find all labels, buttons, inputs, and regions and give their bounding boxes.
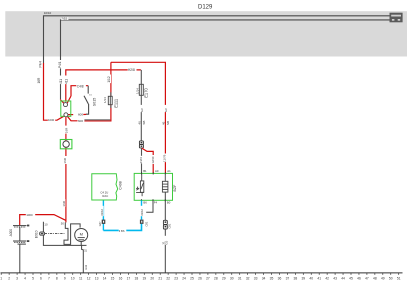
pin A0: [153, 169, 159, 175]
svg-text:3: 3: [16, 276, 18, 280]
svg-text:29: 29: [222, 276, 226, 280]
wire cyan left up: [102, 200, 104, 230]
switch S015 top lead: [87, 86, 89, 94]
wire B0 ground: [164, 229, 166, 273]
svg-text:600: 600: [78, 113, 83, 117]
svg-text:40: 40: [309, 276, 313, 280]
label 411 on wire 2: [59, 76, 63, 85]
svg-text:P4/1: P4/1: [58, 61, 62, 68]
svg-text:10/10: 10/10: [44, 11, 52, 15]
svg-text:46: 46: [357, 276, 361, 280]
label 16R lowest: [61, 199, 66, 207]
module C408 box: [92, 174, 118, 200]
svg-text:46: 46: [138, 121, 142, 125]
svg-text:SB: SB: [166, 121, 170, 125]
label 1000 battery: [26, 213, 35, 217]
svg-text:23: 23: [174, 276, 178, 280]
svg-text:411: 411: [64, 79, 68, 84]
svg-text:16R: 16R: [64, 127, 68, 133]
wire B6 cyan upper: [141, 200, 143, 219]
connector block top right: [390, 13, 403, 23]
label 31/16 right: [140, 206, 144, 216]
svg-text:C408: C408: [118, 181, 122, 190]
svg-text:1/12: 1/12: [107, 76, 111, 82]
svg-text:SB: SB: [142, 121, 146, 125]
svg-text:C4/8: C4/8: [77, 84, 84, 88]
svg-text:46: 46: [161, 121, 165, 125]
label 411 red: [64, 76, 68, 85]
svg-text:42: 42: [325, 276, 329, 280]
svg-text:A000: A000: [9, 229, 13, 237]
connector bushing green box: [60, 140, 72, 149]
svg-text:15: 15: [111, 276, 115, 280]
svg-text:31: 31: [238, 276, 242, 280]
svg-text:8: 8: [56, 276, 58, 280]
label 12/40: [150, 155, 155, 164]
svg-text:16: 16: [119, 276, 123, 280]
svg-text:B0: B0: [167, 201, 171, 205]
svg-text:43: 43: [333, 276, 337, 280]
svg-text:B1: B1: [143, 169, 147, 173]
svg-text:51: 51: [397, 276, 401, 280]
label SB 681: [138, 105, 147, 125]
svg-text:20: 20: [150, 276, 154, 280]
label 600 upper: [78, 113, 84, 117]
svg-text:10: 10: [71, 276, 75, 280]
label 16R lower: [62, 156, 67, 164]
label 1000: [48, 118, 55, 122]
svg-text:36: 36: [278, 276, 282, 280]
svg-text:45: 45: [349, 276, 353, 280]
svg-text:C81: C81: [168, 223, 172, 228]
battery A000: [13, 225, 29, 273]
label 9R 681: [161, 105, 170, 125]
fuse E111 top lead: [110, 62, 112, 96]
sensor element inside BZF: [136, 173, 144, 196]
svg-text:B010: B010: [34, 230, 38, 238]
wire 2 into junction: [60, 100, 64, 104]
svg-text:16R: 16R: [37, 77, 41, 84]
wire 16R battery feed red: [44, 63, 64, 120]
wire 600 lower red: [68, 117, 78, 121]
svg-text:11: 11: [79, 276, 83, 280]
fuse E170 bottom lead: [140, 95, 142, 140]
svg-text:10: 10: [44, 222, 48, 226]
svg-text:1/2: 1/2: [140, 108, 144, 112]
junction green box: [61, 101, 71, 116]
power rail band: [5, 11, 407, 56]
wire A0 red jog: [142, 148, 153, 173]
svg-text:P4/4: P4/4: [39, 61, 43, 68]
svg-text:49: 49: [381, 276, 385, 280]
label 0.35BL: [119, 229, 127, 233]
bus wire 7/52: [61, 20, 390, 99]
switch S015 bottom lead: [86, 104, 89, 114]
bus wire 10/10: [44, 16, 390, 63]
connector cyan left: [102, 220, 106, 224]
pin A1: [165, 169, 171, 175]
svg-text:47: 47: [365, 276, 369, 280]
svg-text:12: 12: [87, 276, 91, 280]
svg-text:28: 28: [214, 276, 218, 280]
fuse E170 body: [139, 84, 143, 95]
svg-text:6: 6: [40, 276, 42, 280]
relay feed wire red: [66, 70, 141, 102]
svg-text:411: 411: [59, 79, 63, 84]
svg-text:9: 9: [64, 276, 66, 280]
svg-text:18: 18: [135, 276, 139, 280]
svg-text:1000: 1000: [48, 118, 55, 122]
svg-text:35: 35: [270, 276, 274, 280]
wire 600 lower gray part: [84, 119, 110, 121]
svg-text:1/2: 1/2: [164, 108, 168, 112]
label 16R mid: [64, 126, 69, 134]
svg-text:21: 21: [158, 276, 162, 280]
pin F4: [153, 199, 158, 204]
svg-text:32: 32: [246, 276, 250, 280]
junction node upper: [64, 103, 68, 107]
pin B0: [165, 199, 170, 204]
svg-text:C2/4: C2/4: [139, 157, 143, 163]
svg-text:1/14: 1/14: [103, 97, 107, 103]
svg-text:33: 33: [254, 276, 258, 280]
svg-text:3 BS: 3 BS: [119, 229, 125, 233]
svg-text:12/7: 12/7: [98, 221, 102, 227]
mechanical linkage dash-dot: [45, 233, 65, 235]
svg-text:39: 39: [301, 276, 305, 280]
svg-text:50: 50: [389, 276, 393, 280]
wire 600 lower red part: [84, 120, 111, 122]
fuse E111 body: [108, 96, 112, 104]
svg-text:1/14: 1/14: [136, 88, 140, 94]
starter motor M: [75, 229, 88, 246]
bridge wire to A1 red: [111, 62, 165, 173]
label H2/8: [128, 67, 137, 72]
svg-text:1: 1: [0, 276, 2, 280]
label 11/79: [162, 154, 167, 163]
svg-text:38: 38: [294, 276, 298, 280]
fuse E111 bottom lead: [110, 105, 112, 122]
pin B6: [142, 199, 148, 204]
pin B1: [142, 169, 148, 175]
resistor element inside BZF: [162, 173, 168, 200]
label P4/1 on wire 2: [58, 60, 63, 68]
connector cyan right: [140, 220, 144, 224]
svg-text:22: 22: [166, 276, 170, 280]
svg-text:7: 7: [48, 276, 50, 280]
label C2/4: [138, 156, 143, 164]
svg-text:4: 4: [24, 276, 26, 280]
svg-text:RAC: RAC: [102, 194, 108, 198]
svg-text:7/52: 7/52: [61, 17, 67, 21]
starter box left edge: [43, 222, 86, 246]
svg-text:600: 600: [78, 119, 83, 123]
svg-text:50: 50: [61, 221, 65, 225]
switch S015 blade: [84, 96, 88, 104]
module BZF box: [134, 173, 172, 200]
svg-text:27: 27: [206, 276, 210, 280]
svg-text:A0: A0: [155, 169, 159, 173]
wire B0 upper: [164, 200, 166, 220]
connector B0: [163, 220, 167, 229]
svg-text:M: M: [80, 232, 83, 237]
svg-text:37: 37: [286, 276, 290, 280]
svg-text:17: 17: [127, 276, 131, 280]
svg-text:24: 24: [182, 276, 186, 280]
label 681 ground: [161, 236, 169, 245]
junction node lower: [64, 113, 68, 117]
svg-text:12/40: 12/40: [151, 156, 155, 163]
svg-text:26: 26: [198, 276, 202, 280]
fuse E111 bottom tick: [110, 105, 112, 108]
solenoid contact: [64, 222, 80, 244]
wire B6 cyan lower: [103, 224, 141, 231]
svg-text:2: 2: [8, 276, 10, 280]
switch feed wire: [71, 86, 88, 96]
svg-text:BZF: BZF: [173, 184, 177, 192]
svg-text:30: 30: [230, 276, 234, 280]
label 7/52: [61, 17, 68, 21]
svg-text:A1: A1: [167, 169, 171, 173]
svg-text:H2/8: H2/8: [128, 68, 135, 72]
svg-text:S015: S015: [93, 98, 97, 106]
svg-text:D129: D129: [198, 5, 213, 11]
svg-text:16R: 16R: [63, 157, 67, 163]
svg-text:15: 15: [89, 94, 92, 96]
svg-text:31: 31: [84, 248, 87, 252]
svg-text:G31: G31: [84, 264, 88, 269]
label 31/16 left: [100, 206, 104, 216]
svg-text:B6: B6: [143, 201, 147, 205]
main red feed down: [65, 117, 67, 222]
label 1/12: [107, 75, 112, 84]
switch feed into junction: [67, 96, 71, 103]
label C4/8: [76, 83, 86, 88]
fuse E170 top lead: [140, 70, 142, 84]
svg-text:48: 48: [373, 276, 377, 280]
svg-text:C81: C81: [144, 221, 148, 226]
svg-text:G5: G5: [165, 240, 169, 244]
battery feed wire 1000: [20, 215, 66, 226]
connector C2: [139, 141, 143, 148]
svg-text:41: 41: [317, 276, 321, 280]
svg-text:31/16: 31/16: [100, 208, 104, 215]
svg-text:E111: E111: [113, 98, 118, 108]
svg-text:16R: 16R: [62, 200, 66, 206]
svg-text:14: 14: [103, 276, 107, 280]
tick 600 upper: [83, 113, 86, 115]
wire F4 stub: [146, 200, 153, 212]
svg-text:E170: E170: [144, 88, 149, 98]
svg-text:19: 19: [142, 276, 146, 280]
svg-text:13: 13: [95, 276, 99, 280]
label 600 lower: [78, 119, 84, 123]
svg-text:F4: F4: [154, 201, 158, 205]
ruler ticks and numbers: [0, 273, 400, 280]
svg-text:34: 34: [262, 276, 266, 280]
svg-text:25: 25: [190, 276, 194, 280]
starter ground wire: [82, 245, 84, 273]
svg-text:44: 44: [341, 276, 345, 280]
svg-text:5: 5: [32, 276, 34, 280]
ruler line: [1, 272, 403, 274]
wire 600 upper: [68, 114, 73, 116]
svg-text:31/16: 31/16: [140, 208, 144, 215]
linkage bushing: [40, 232, 45, 235]
wire B1 gray: [141, 148, 143, 174]
fuse E111 top tick: [110, 92, 112, 96]
svg-text:1000: 1000: [26, 213, 33, 217]
svg-text:11/79: 11/79: [162, 154, 166, 162]
